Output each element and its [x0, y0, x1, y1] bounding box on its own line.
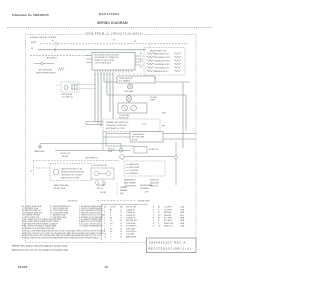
latch dashed box	[50, 164, 92, 181]
svg-text:N.O. HELD CL: N.O. HELD CL	[62, 97, 73, 99]
resistor R4	[147, 63, 154, 65]
svg-text:8: 8	[104, 228, 105, 230]
wire bus L1 dashed	[40, 43, 188, 45]
svg-text:AT 70F: AT 70F	[132, 138, 137, 141]
svg-text:9: 9	[104, 231, 105, 233]
wires into TOD	[86, 121, 103, 123]
svg-text:T: T	[110, 236, 111, 238]
svg-text:L1 SUPPLY: L1 SUPPLY	[164, 207, 173, 209]
wire gauge table	[104, 206, 138, 239]
terminal circle right	[174, 155, 177, 158]
motor M2 box with windings	[118, 103, 147, 113]
svg-text:B: B	[153, 209, 154, 211]
svg-text:MOTOR 120V: MOTOR 120V	[68, 201, 77, 203]
svg-text:16: 16	[120, 223, 122, 225]
svg-text:EOC PWR: EOC PWR	[164, 218, 172, 220]
svg-text:SHOWN DOOR UNLOCKED POS: SHOWN DOOR UNLOCKED POS	[61, 172, 84, 174]
svg-text:COLOR: COLOR	[110, 207, 117, 209]
resistor R5	[147, 67, 154, 69]
svg-text:5: 5	[104, 220, 105, 222]
svg-text:2: 2	[104, 212, 105, 214]
node title VIEW FROM L1 CIRCUITS	[82, 31, 142, 36]
svg-text:ELEMENTS: ELEMENTS	[130, 173, 138, 175]
svg-text:BROIL 3400W: BROIL 3400W	[130, 167, 140, 169]
probe jack circle	[95, 181, 99, 185]
svg-text:ALL WIRING 105C APPLIANCE WIRE: ALL WIRING 105C APPLIANCE WIRE MIN	[22, 227, 55, 230]
long dashed wire y160	[33, 160, 120, 162]
pin number labels	[142, 56, 143, 67]
relay board K1 dashed box	[144, 48, 185, 76]
svg-text:F: F	[153, 220, 154, 222]
svg-text:LATCH SWITCH: LATCH SWITCH	[85, 157, 98, 160]
wire horizontal y95	[107, 94, 186, 96]
diagram border frame	[26, 35, 197, 243]
clock box	[130, 132, 163, 143]
svg-text:240V: 240V	[120, 193, 124, 195]
svg-text:18: 18	[120, 228, 122, 230]
svg-text:5995435155 REV-A: 5995435155 REV-A	[149, 241, 186, 244]
wire L2 dashed	[30, 55, 88, 57]
wire bundle from U1 down	[95, 73, 113, 128]
legend numbered notes column	[79, 205, 105, 228]
switch S1 interlock dashed box	[61, 82, 79, 92]
svg-text:MOTOR: MOTOR	[97, 188, 103, 190]
relay pin labels left	[140, 52, 142, 69]
wire horizontal y143.5	[40, 143, 121, 145]
svg-text:MOTOR 120V: MOTOR 120V	[119, 118, 128, 120]
svg-text:WIRING DIAGRAM: WIRING DIAGRAM	[97, 21, 128, 25]
svg-text:TOD: TOD	[142, 124, 147, 126]
connector pin grid	[71, 84, 78, 91]
svg-text:3: 3	[104, 215, 105, 217]
svg-text:P4: P4	[134, 41, 136, 43]
wire horizontal y82	[104, 81, 190, 83]
pin leads right of U1	[135, 56, 141, 65]
svg-text:12: 12	[120, 218, 122, 220]
wire vertical left dashed	[33, 161, 35, 177]
wire vertical right x186	[185, 95, 187, 131]
svg-text:BK/W POWER SUPPLY: BK/W POWER SUPPLY	[36, 73, 57, 75]
svg-text:LIGHTS: LIGHTS	[150, 100, 155, 102]
svg-text:USE ONLY FACTORY AUTHORIZED RE: USE ONLY FACTORY AUTHORIZED REPLACEMENT …	[22, 237, 100, 240]
svg-text:3: 3	[142, 62, 143, 64]
wire vertical from TOD to latch area	[102, 132, 104, 151]
svg-text:LOCK MOTOR 120V: LOCK MOTOR 120V	[93, 165, 107, 167]
svg-text:10. DOUBLE LINE BREAK SW: 10. DOUBLE LINE BREAK SW	[79, 225, 103, 228]
svg-text:OPENS 140F CLOSES 110F: OPENS 140F CLOSES 110F	[106, 125, 127, 127]
svg-text:EOC BOARD P2 CONNECTOR: EOC BOARD P2 CONNECTOR	[95, 56, 120, 59]
op-amp U1 electronic oven control box	[92, 53, 135, 71]
element dashed box	[124, 161, 165, 176]
terminal circle	[41, 62, 43, 64]
svg-text:L2 SUPPLY: L2 SUPPLY	[164, 209, 173, 211]
svg-text:DOOR LOCK: DOOR LOCK	[60, 153, 71, 155]
svg-text:L2 BROIL EL: L2 BROIL EL	[126, 215, 135, 217]
svg-text:HI-LIMIT SW: HI-LIMIT SW	[149, 149, 159, 151]
svg-text:RTD SENSOR: RTD SENSOR	[126, 226, 137, 228]
motor M1 box	[91, 168, 114, 179]
svg-text:VIEW FROM L1 CIRCUITS IN BACK: VIEW FROM L1 CIRCUITS IN BACK	[85, 32, 142, 36]
svg-text:2: 2	[142, 59, 143, 61]
svg-text:NOTICE: This diagram shows the: NOTICE: This diagram shows the appliance…	[12, 244, 68, 247]
svg-text:P1: P1	[113, 40, 115, 42]
svg-text:18: 18	[120, 234, 122, 236]
ground	[58, 68, 64, 71]
wire horizontal to junction block	[106, 145, 134, 147]
second table	[153, 206, 185, 228]
svg-text:12: 12	[120, 215, 122, 217]
svg-text:11: 11	[104, 236, 106, 238]
notes paragraph	[22, 229, 106, 239]
wire neutral solid	[38, 49, 146, 51]
svg-text:12: 12	[120, 212, 122, 214]
resistor R6	[147, 70, 154, 72]
svg-text:OVEN SENSOR: OVEN SENSOR	[132, 134, 145, 136]
wire drop to relay box	[149, 44, 151, 48]
junction tick on neutral	[54, 48, 56, 52]
svg-text:6: 6	[104, 223, 105, 225]
svg-text:7: 7	[104, 226, 105, 228]
lamp L1	[129, 83, 131, 84]
svg-text:BK SUPPLY: BK SUPPLY	[47, 58, 58, 60]
svg-text:SURFACE UNITS NOT SHOWN: SURFACE UNITS NOT SHOWN	[30, 36, 57, 39]
wire stubs into U1 left edge	[86, 56, 92, 63]
junction circle on y150 wire	[119, 149, 123, 153]
svg-text:W: W	[31, 48, 33, 50]
switch circle in latch box	[53, 169, 59, 175]
wire stub with terminal	[34, 63, 54, 65]
svg-text:GROUND: GROUND	[164, 215, 172, 217]
svg-text:18: 18	[120, 231, 122, 233]
svg-text:GROUND TERM: GROUND TERM	[138, 200, 150, 202]
svg-text:61008: 61008	[18, 265, 27, 269]
table separator	[101, 205, 103, 241]
thermostat dashed box TOD	[103, 119, 160, 132]
wire vertical right x183	[182, 82, 184, 148]
svg-text:240V 1PH 60HZ: 240V 1PH 60HZ	[38, 70, 53, 72]
motor winding circles	[94, 171, 99, 176]
svg-text:BEC27S6S3: BEC27S6S3	[99, 12, 120, 16]
svg-text:CONV ELEM: CONV ELEM	[126, 223, 136, 225]
svg-text:1: 1	[142, 56, 143, 58]
svg-text:C3: C3	[140, 67, 142, 69]
svg-text:Publication No. 5995435155: Publication No. 5995435155	[12, 13, 49, 17]
wire dashed vertical x117	[116, 183, 118, 196]
wire vertical x176	[175, 142, 177, 185]
svg-text:GN/Y: GN/Y	[145, 191, 149, 193]
svg-text:1: 1	[104, 209, 105, 211]
svg-text:CONV 350W: CONV 350W	[130, 170, 139, 172]
svg-text:16: 16	[120, 220, 122, 222]
svg-text:4: 4	[104, 218, 105, 220]
svg-text:18: 18	[120, 226, 122, 228]
svg-text:RTD 1080 OHM: RTD 1080 OHM	[132, 137, 145, 139]
title block box	[147, 238, 197, 253]
svg-text:ANTI-TIP SW: ANTI-TIP SW	[62, 93, 73, 96]
svg-text:Replacement wire must be same: Replacement wire must be same gauge and …	[12, 248, 69, 251]
oven light switch box	[117, 76, 155, 83]
svg-text:2585W 240V: 2585W 240V	[150, 180, 159, 182]
svg-text:10: 10	[105, 265, 109, 269]
wire leads right of S1	[79, 84, 95, 86]
svg-text:E: E	[153, 218, 154, 220]
wire stub to latch box	[36, 167, 50, 169]
svg-text:OVEN LIGHT SW: OVEN LIGHT SW	[119, 78, 133, 80]
svg-text:RELAY OUTPUTS 16 PIN: RELAY OUTPUTS 16 PIN	[95, 59, 115, 62]
svg-text:LOCK SWITCH N.O. CLOSES: LOCK SWITCH N.O. CLOSES	[61, 175, 81, 177]
header dashed rule	[7, 27, 213, 29]
lamp L2	[126, 96, 132, 102]
svg-text:N.O. MOMENT: N.O. MOMENT	[119, 81, 130, 83]
switch S1 contact circle	[64, 86, 68, 90]
small junction block	[134, 147, 147, 154]
svg-text:BROIL ELEMENT: BROIL ELEMENT	[124, 183, 136, 185]
door lock switch circle	[120, 155, 125, 160]
resistor R2	[147, 56, 154, 58]
svg-text:10: 10	[104, 234, 106, 236]
svg-text:12: 12	[120, 209, 122, 211]
wire labels right column	[162, 113, 166, 128]
svg-text:BK/W: BK/W	[31, 42, 36, 44]
svg-text:BK/W: BK/W	[162, 113, 166, 115]
svg-text:B2: B2	[140, 60, 142, 62]
svg-text:L1 BROIL EL: L1 BROIL EL	[126, 218, 135, 220]
wire y156.5	[124, 156, 174, 158]
plug P1 circle on L1 wire	[55, 43, 58, 46]
svg-text:EOC NEUT: EOC NEUT	[164, 220, 172, 222]
svg-text:LOW VOLTAGE SIDE: LOW VOLTAGE SIDE	[95, 61, 112, 64]
svg-text:WHEN DOOR IS LOCKED: WHEN DOOR IS LOCKED	[61, 178, 80, 180]
svg-text:3400W 240V: 3400W 240V	[150, 183, 159, 185]
wire horizontal y150	[55, 149, 130, 151]
svg-text:TO OVEN: TO OVEN	[150, 97, 157, 99]
wire dashes above table	[97, 199, 137, 201]
wires from clock to border	[163, 133, 196, 135]
wire vertical to junction block	[105, 132, 107, 147]
svg-text:CIRCUIT USE: CIRCUIT USE	[126, 207, 136, 209]
resistor R3	[147, 60, 154, 62]
svg-text:BEC27S6S3/LDR(1/1): BEC27S6S3/LDR(1/1)	[149, 246, 193, 250]
svg-text:P1: P1	[52, 41, 54, 43]
svg-text:4: 4	[142, 65, 143, 67]
legend color codes column	[22, 205, 71, 230]
svg-text:18: 18	[120, 236, 122, 238]
pin ticks bottom of U1	[95, 70, 131, 73]
ground chassis	[39, 144, 41, 147]
svg-text:L2: L2	[30, 171, 32, 173]
resistor R1	[147, 53, 154, 55]
wire into sensor box	[106, 133, 130, 135]
svg-text:MOTOR: MOTOR	[62, 156, 69, 158]
